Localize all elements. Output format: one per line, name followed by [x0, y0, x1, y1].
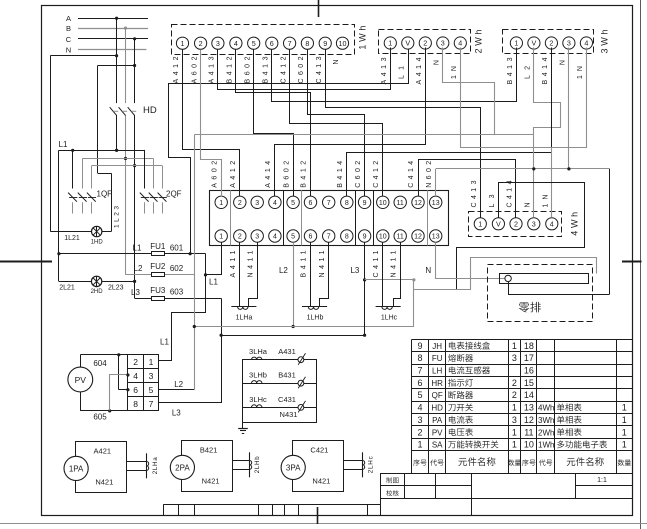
- current transformer 1LHb: [302, 307, 327, 322]
- svg-text:6: 6: [309, 234, 313, 241]
- wire A414: [275, 48, 426, 197]
- JH top labels: [211, 161, 433, 188]
- wire N411 a: [249, 243, 258, 307]
- svg-text:4Wh: 4Wh: [538, 404, 554, 413]
- svg-text:1Wh: 1Wh: [358, 26, 368, 50]
- svg-text:8: 8: [345, 234, 349, 241]
- wire N meters: [436, 48, 610, 295]
- svg-text:FU: FU: [432, 354, 443, 363]
- svg-text:2: 2: [417, 427, 422, 437]
- neutral bus bar box: [488, 265, 610, 322]
- wire 605: [80, 373, 158, 421]
- svg-text:1PA: 1PA: [69, 464, 84, 473]
- svg-text:3: 3: [417, 415, 422, 425]
- svg-text:1LHc: 1LHc: [381, 315, 398, 322]
- svg-text:SA: SA: [432, 441, 443, 450]
- svg-text:6: 6: [270, 39, 274, 48]
- wire N drop to bus bar: [436, 242, 505, 279]
- 1Wh terminal labels: [173, 56, 340, 83]
- svg-text:12: 12: [524, 415, 534, 425]
- svg-text:4: 4: [458, 39, 462, 48]
- svg-text:C: C: [66, 35, 72, 44]
- svg-text:L2: L2: [174, 380, 183, 389]
- indicator lamp 1HD: [50, 206, 120, 246]
- svg-text:1: 1: [512, 341, 517, 351]
- current transformer block 3LH: [243, 347, 317, 422]
- svg-text:2: 2: [512, 390, 517, 400]
- current transformer 1LHa: [231, 307, 256, 322]
- svg-text:3: 3: [255, 200, 259, 207]
- svg-text:5: 5: [149, 385, 154, 395]
- wire 604: [80, 353, 129, 391]
- svg-text:16: 16: [524, 366, 534, 376]
- svg-text:1: 1: [512, 440, 517, 450]
- svg-text:C431: C431: [278, 395, 296, 404]
- svg-text:9: 9: [323, 39, 327, 48]
- svg-text:602: 602: [170, 264, 184, 273]
- fuse FU1: [59, 242, 206, 256]
- svg-text:1: 1: [219, 200, 223, 207]
- svg-text:15: 15: [524, 378, 534, 388]
- svg-text:10: 10: [379, 200, 387, 207]
- wire 1N: [461, 48, 587, 218]
- svg-text:11: 11: [397, 200, 404, 207]
- svg-text:V: V: [496, 220, 501, 229]
- wire phase A tap: [115, 17, 118, 152]
- svg-text:4: 4: [584, 39, 588, 48]
- svg-text:N431: N431: [280, 410, 298, 419]
- svg-text:C421: C421: [310, 445, 328, 454]
- svg-text:2: 2: [512, 378, 517, 388]
- svg-text:N: N: [66, 46, 71, 55]
- svg-text:3LHc: 3LHc: [249, 395, 267, 404]
- bus B: [66, 24, 148, 33]
- svg-text:9: 9: [417, 341, 422, 351]
- svg-text:HR: HR: [431, 379, 443, 388]
- svg-text:N: N: [525, 202, 532, 207]
- svg-text:N: N: [425, 266, 431, 275]
- svg-text:N421: N421: [202, 476, 220, 485]
- svg-text:10: 10: [379, 234, 387, 241]
- svg-text:5: 5: [252, 39, 256, 48]
- svg-text:1LHa: 1LHa: [236, 315, 253, 322]
- svg-text:1LHb: 1LHb: [307, 315, 324, 322]
- svg-text:L3: L3: [172, 409, 181, 418]
- svg-text:HD: HD: [431, 404, 443, 413]
- svg-text:FU1: FU1: [150, 242, 166, 251]
- wire C413: [326, 50, 481, 218]
- svg-text:10: 10: [339, 39, 347, 48]
- meter 1Wh terminal block: [172, 25, 368, 55]
- svg-text:3: 3: [441, 39, 445, 48]
- wire 601 to JH terminal and selector: [159, 243, 222, 361]
- svg-text:4: 4: [273, 200, 277, 207]
- centering tick right: [622, 261, 642, 263]
- svg-text:12: 12: [414, 234, 422, 241]
- svg-text:4: 4: [273, 234, 277, 241]
- svg-text:3: 3: [149, 371, 154, 381]
- ammeter 3PA: [281, 441, 374, 492]
- svg-text:L1: L1: [209, 278, 218, 287]
- svg-text:7: 7: [149, 399, 154, 409]
- svg-text:2: 2: [549, 39, 553, 48]
- svg-text:8: 8: [305, 39, 309, 48]
- svg-text:N: N: [333, 60, 340, 65]
- svg-text:B: B: [66, 24, 71, 33]
- svg-text:2L21: 2L21: [59, 284, 75, 291]
- svg-text:1QF: 1QF: [97, 189, 113, 198]
- svg-text:L2: L2: [134, 264, 143, 273]
- fuse FU3: [131, 286, 221, 301]
- svg-text:3Wh: 3Wh: [538, 416, 554, 425]
- wire A602: [201, 50, 222, 197]
- meter 3Wh terminal block: [503, 30, 610, 85]
- wire L2 drop: [193, 242, 597, 328]
- svg-text:2LHb: 2LHb: [254, 456, 261, 474]
- svg-text:18: 18: [524, 341, 534, 351]
- svg-text:603: 603: [170, 288, 184, 297]
- svg-text:LH: LH: [432, 367, 442, 376]
- svg-text:601: 601: [170, 244, 184, 253]
- svg-text:4: 4: [550, 220, 554, 229]
- svg-text:13: 13: [524, 403, 534, 413]
- svg-text:8: 8: [417, 353, 422, 363]
- svg-text:PA: PA: [432, 416, 443, 425]
- svg-text:3PA: 3PA: [286, 463, 301, 472]
- svg-text:V: V: [532, 39, 537, 48]
- junction box JH: [210, 190, 449, 245]
- svg-text:7: 7: [288, 39, 292, 48]
- wire A411: [239, 242, 241, 307]
- svg-text:PV: PV: [75, 375, 87, 385]
- svg-text:1: 1: [181, 39, 185, 48]
- svg-text:6: 6: [133, 385, 138, 395]
- svg-text:N421: N421: [95, 477, 113, 486]
- svg-text:1: 1: [388, 39, 392, 48]
- svg-text:N: N: [434, 60, 441, 65]
- svg-text:13: 13: [432, 200, 440, 207]
- svg-text:L2: L2: [279, 266, 288, 275]
- fuse FU2: [126, 262, 195, 276]
- circuit breaker 1QF: [68, 150, 112, 213]
- svg-text:N421: N421: [312, 476, 330, 485]
- svg-text:2L23: 2L23: [108, 284, 124, 291]
- svg-text:14: 14: [524, 390, 534, 400]
- wire N411 b: [320, 243, 329, 307]
- svg-text:1: 1: [219, 234, 223, 241]
- selector switch SA grid: [128, 355, 159, 411]
- indicator lamp 2HD: [59, 276, 135, 295]
- svg-text:2: 2: [199, 39, 203, 48]
- bus N: [66, 46, 147, 55]
- ammeter 1PA: [64, 442, 159, 493]
- svg-text:7: 7: [417, 366, 422, 376]
- wire L3 to 4Wh: [457, 183, 585, 290]
- wire L3 drop: [363, 242, 416, 335]
- wire A412: [183, 50, 240, 197]
- svg-text:HD: HD: [143, 105, 157, 116]
- wire phase C tap: [133, 37, 136, 298]
- svg-text:1L21: 1L21: [64, 235, 80, 242]
- wire left vertical to 2HD: [57, 150, 60, 281]
- ground: [238, 423, 248, 434]
- wire C branch left: [98, 66, 135, 232]
- circuit breaker 2QF: [140, 150, 182, 214]
- svg-text:FU2: FU2: [150, 262, 166, 271]
- svg-text:5: 5: [291, 200, 295, 207]
- wire L3 lower run: [220, 298, 367, 337]
- svg-text:3: 3: [255, 234, 259, 241]
- wire B413: [272, 48, 517, 102]
- svg-text:1: 1: [512, 403, 517, 413]
- svg-text:8: 8: [345, 200, 349, 207]
- svg-text:PV: PV: [432, 428, 443, 437]
- svg-text:1: 1: [622, 427, 627, 437]
- svg-text:3LHa: 3LHa: [249, 347, 268, 356]
- svg-text:6: 6: [417, 378, 422, 388]
- svg-text:1HD: 1HD: [91, 240, 104, 246]
- svg-text:11: 11: [397, 234, 404, 241]
- svg-text:3LHb: 3LHb: [249, 371, 267, 380]
- svg-text:N: N: [560, 60, 567, 65]
- svg-text:1Wh: 1Wh: [538, 441, 554, 450]
- svg-text:4: 4: [133, 371, 138, 381]
- svg-text:1: 1: [622, 403, 627, 413]
- svg-text:1:1: 1:1: [597, 477, 607, 484]
- svg-text:13: 13: [432, 234, 440, 241]
- wire L3: [92, 165, 163, 167]
- svg-text:A: A: [66, 14, 71, 23]
- wire A413: [218, 48, 391, 90]
- svg-text:8: 8: [133, 399, 138, 409]
- svg-text:3: 3: [216, 39, 220, 48]
- svg-text:3: 3: [567, 39, 571, 48]
- svg-text:604: 604: [93, 359, 107, 368]
- svg-text:B431: B431: [278, 371, 296, 380]
- wire N411 c: [394, 243, 401, 307]
- meter 2Wh terminal block: [379, 30, 484, 85]
- svg-text:1: 1: [622, 415, 627, 425]
- wire L2 to 3Wh: [194, 48, 560, 390]
- svg-text:1: 1: [514, 39, 518, 48]
- svg-text:4: 4: [234, 39, 238, 48]
- wire C412: [290, 50, 383, 197]
- wire C411: [382, 242, 384, 307]
- svg-text:V: V: [405, 39, 410, 48]
- bus A: [66, 14, 148, 23]
- svg-text:1: 1: [622, 440, 627, 450]
- wire C602: [308, 50, 365, 197]
- svg-text:4Wh: 4Wh: [570, 212, 580, 236]
- scale bar: [163, 505, 380, 516]
- svg-text:2: 2: [238, 200, 242, 207]
- svg-text:2HD: 2HD: [91, 289, 104, 295]
- svg-text:2: 2: [133, 357, 138, 367]
- wire B414: [347, 48, 552, 197]
- wire 601 riser to 2Wh: [169, 50, 409, 254]
- svg-text:3Wh: 3Wh: [600, 30, 610, 54]
- svg-text:7: 7: [327, 234, 331, 241]
- svg-text:1: 1: [512, 427, 517, 437]
- svg-text:L1: L1: [59, 140, 68, 149]
- svg-text:L3: L3: [350, 266, 359, 275]
- svg-text:3: 3: [532, 220, 536, 229]
- svg-text:3: 3: [512, 415, 517, 425]
- bus C: [66, 35, 148, 44]
- knife switch HD: [109, 103, 157, 116]
- svg-text:2: 2: [238, 234, 242, 241]
- wire A branch left: [50, 56, 116, 232]
- svg-text:L1: L1: [133, 244, 142, 253]
- svg-text:A421: A421: [94, 446, 112, 455]
- wire L2 from selector: [159, 380, 195, 390]
- centering tick bottom: [317, 507, 319, 524]
- svg-text:12: 12: [414, 200, 422, 207]
- wire L2: [82, 158, 153, 160]
- svg-text:2: 2: [514, 220, 518, 229]
- svg-text:1: 1: [417, 440, 422, 450]
- svg-text:9: 9: [363, 234, 367, 241]
- wire B602: [254, 50, 294, 197]
- svg-text:4: 4: [417, 403, 422, 413]
- svg-text:2LHa: 2LHa: [152, 457, 159, 475]
- svg-text:5: 5: [291, 234, 295, 241]
- wire B411: [310, 242, 312, 307]
- svg-text:2Wh: 2Wh: [474, 30, 484, 54]
- svg-text:2QF: 2QF: [166, 189, 182, 198]
- wire L3 from selector: [159, 336, 222, 418]
- svg-text:5: 5: [417, 390, 422, 400]
- svg-text:1: 1: [478, 220, 482, 229]
- svg-text:QF: QF: [432, 391, 443, 400]
- svg-text:1: 1: [149, 357, 154, 367]
- voltmeter PV: [68, 367, 93, 392]
- svg-text:FU3: FU3: [150, 286, 166, 295]
- centering tick left: [0, 261, 52, 263]
- svg-text:A431: A431: [278, 347, 296, 356]
- svg-text:2: 2: [423, 39, 427, 48]
- svg-text:3: 3: [512, 353, 517, 363]
- wire phase B tap: [124, 27, 127, 275]
- svg-text:L3: L3: [131, 288, 140, 297]
- svg-text:10: 10: [524, 440, 534, 450]
- ammeter 2PA: [170, 441, 261, 492]
- wire B412: [236, 50, 311, 197]
- JH bottom labels: [230, 250, 431, 277]
- svg-text:6: 6: [309, 200, 313, 207]
- svg-text:JH: JH: [432, 342, 442, 351]
- component table: [412, 340, 633, 474]
- meter 4Wh terminal block: [469, 180, 580, 236]
- wire C414: [419, 160, 516, 218]
- svg-text:L1: L1: [160, 338, 169, 347]
- svg-text:11: 11: [524, 427, 533, 437]
- svg-text:7: 7: [327, 200, 331, 207]
- svg-text:17: 17: [524, 353, 534, 363]
- svg-text:9: 9: [363, 200, 367, 207]
- title block: [381, 474, 633, 516]
- svg-text:2Wh: 2Wh: [538, 428, 554, 437]
- centering tick top: [318, 0, 320, 17]
- svg-text:2LHc: 2LHc: [368, 456, 375, 473]
- svg-text:605: 605: [93, 412, 107, 421]
- svg-text:B421: B421: [200, 445, 218, 454]
- current transformer 1LHc: [376, 307, 401, 322]
- svg-text:2PA: 2PA: [175, 463, 190, 472]
- wire L1: [59, 140, 145, 152]
